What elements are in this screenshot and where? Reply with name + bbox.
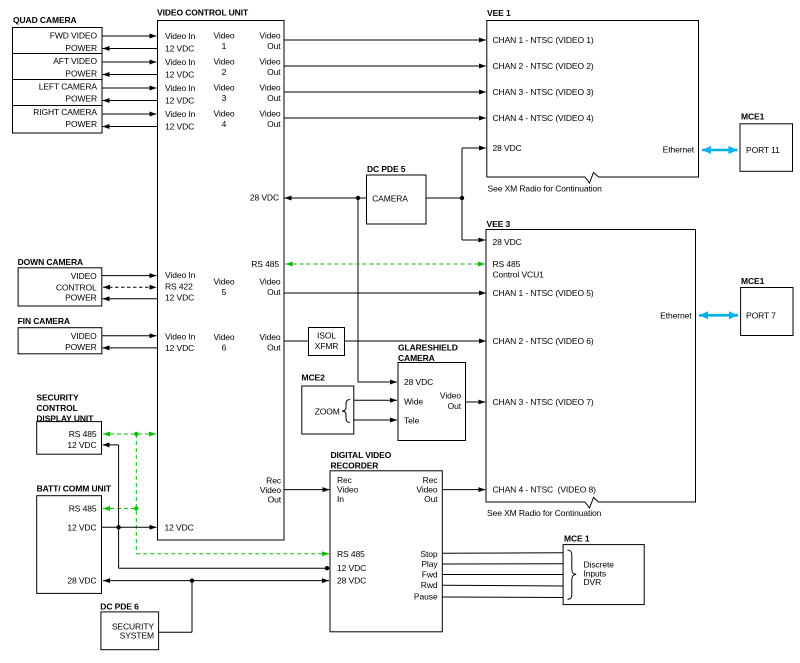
batt/comm unit box bbox=[37, 496, 102, 594]
svg-text:See XM Radio for Continuation: See XM Radio for Continuation bbox=[487, 508, 602, 518]
wire rwd to MCE1 bbox=[442, 584, 563, 587]
svg-text:Video: Video bbox=[440, 391, 461, 401]
wire 12 vdc vertical run bbox=[118, 445, 120, 568]
svg-text:XFMR: XFMR bbox=[315, 341, 339, 351]
SCDU pin labels bbox=[67, 429, 97, 450]
svg-text:POWER: POWER bbox=[65, 119, 97, 129]
glareshield camera box bbox=[398, 363, 466, 441]
svg-text:Video In: Video In bbox=[165, 109, 196, 119]
svg-text:CHAN 3 - NTSC (VIDEO 7): CHAN 3 - NTSC (VIDEO 7) bbox=[493, 397, 594, 407]
svg-text:VEE 3: VEE 3 bbox=[487, 219, 511, 229]
wire glareshield video out to VEE3 chan 3 bbox=[466, 401, 486, 403]
svg-text:RECORDER: RECORDER bbox=[331, 460, 379, 470]
svg-text:VEE 1: VEE 1 bbox=[487, 8, 511, 18]
svg-text:Video: Video bbox=[213, 83, 234, 93]
wire 12 vdc batt/comm to VCU bbox=[102, 526, 157, 528]
wire 28 vdc from DC PDE5 junction to VEE1 and VEE3 bbox=[426, 148, 486, 240]
discrete inputs brace bbox=[568, 550, 577, 599]
svg-text:CHAN 2 - NTSC (VIDEO 2): CHAN 2 - NTSC (VIDEO 2) bbox=[493, 61, 594, 71]
svg-text:Play: Play bbox=[421, 559, 438, 569]
DC PDE 6 box bbox=[101, 612, 159, 650]
svg-text:MCE1: MCE1 bbox=[741, 276, 765, 286]
wire down camera video to VCU video in 5 bbox=[102, 275, 157, 277]
svg-text:RS 422: RS 422 bbox=[165, 282, 193, 292]
svg-text:12 VDC: 12 VDC bbox=[165, 44, 194, 54]
svg-text:RS 485: RS 485 bbox=[251, 259, 279, 269]
svg-text:Rwd: Rwd bbox=[421, 580, 438, 590]
wire video out 3 to VEE1 chan 3 bbox=[284, 91, 486, 93]
svg-text:Rec: Rec bbox=[423, 475, 439, 485]
svg-text:DC PDE 5: DC PDE 5 bbox=[367, 164, 406, 174]
VCU video 5 pin labels bbox=[165, 270, 281, 303]
svg-text:12 VDC: 12 VDC bbox=[67, 522, 96, 532]
VCU video out pin labels 1-4 bbox=[259, 31, 281, 130]
svg-text:Video: Video bbox=[259, 277, 280, 287]
wire DVR rec video out to VEE3 chan 4 bbox=[442, 489, 485, 491]
DVR transport pin labels bbox=[414, 549, 438, 602]
zoom brace bbox=[342, 400, 350, 423]
wire fwd video to VCU video in 1 bbox=[102, 35, 157, 37]
svg-text:CHAN 2 - NTSC (VIDEO 6): CHAN 2 - NTSC (VIDEO 6) bbox=[493, 336, 594, 346]
svg-text:Ethernet: Ethernet bbox=[660, 310, 692, 320]
wire left camera video to VCU video in 3 bbox=[102, 87, 157, 89]
svg-text:Video: Video bbox=[259, 57, 280, 67]
security control display unit title bbox=[36, 392, 94, 423]
svg-text:Video In: Video In bbox=[165, 31, 196, 41]
svg-text:Out: Out bbox=[268, 495, 282, 505]
svg-text:RS 485: RS 485 bbox=[493, 259, 521, 269]
svg-text:2: 2 bbox=[222, 67, 227, 77]
svg-text:CHAN 4 - NTSC (VIDEO 8): CHAN 4 - NTSC (VIDEO 8) bbox=[493, 485, 597, 495]
svg-text:RS 485: RS 485 bbox=[69, 504, 97, 514]
isolation transformer box bbox=[309, 328, 345, 356]
svg-text:28 VDC: 28 VDC bbox=[67, 576, 96, 586]
DVR rec video out pin label bbox=[416, 475, 438, 504]
svg-text:12 VDC: 12 VDC bbox=[337, 563, 366, 573]
svg-text:VIDEO CONTROL UNIT: VIDEO CONTROL UNIT bbox=[157, 7, 249, 17]
wire 12 vdc VCU to fin camera power bbox=[103, 347, 158, 349]
wire video out 5 to VEE3 chan 1 bbox=[284, 292, 486, 294]
wire 28 vdc from DC PDE 5 to VCU bbox=[285, 197, 367, 199]
svg-text:POWER: POWER bbox=[65, 94, 97, 104]
ethernet link VEE1 to MCE1 port 11 (cyan) bbox=[702, 149, 738, 152]
svg-text:PORT 7: PORT 7 bbox=[746, 310, 776, 320]
wire rs 485 green net drop bbox=[135, 434, 137, 554]
svg-text:Out: Out bbox=[267, 287, 281, 297]
svg-text:Video In: Video In bbox=[165, 332, 196, 342]
svg-text:12 VDC: 12 VDC bbox=[165, 122, 194, 132]
svg-text:4: 4 bbox=[222, 119, 227, 129]
svg-text:Out: Out bbox=[448, 401, 462, 411]
wire 12 vdc VCU to down camera power bbox=[103, 298, 158, 300]
svg-text:CHAN 1 - NTSC (VIDEO 1): CHAN 1 - NTSC (VIDEO 1) bbox=[493, 35, 594, 45]
svg-text:6: 6 bbox=[222, 343, 227, 353]
svg-text:FIN CAMERA: FIN CAMERA bbox=[18, 316, 70, 326]
wire rs 485 green net to DVR bbox=[136, 553, 329, 555]
svg-text:VIDEO: VIDEO bbox=[71, 331, 97, 341]
DVR rec video in pin label bbox=[337, 475, 358, 504]
VEE 3 box with break symbol bbox=[486, 230, 696, 509]
wire 12 vdc 3 to left power bbox=[103, 100, 158, 102]
junction rs 485 batt/comm tap bbox=[134, 506, 138, 510]
VCU channel labels video 1-4 bbox=[213, 31, 234, 130]
wire 12 vdc 1 to fwd power bbox=[103, 48, 158, 50]
wire video out 6 through isol xfmr to VEE3 chan 2 bbox=[284, 340, 486, 342]
MCE2 box bbox=[302, 386, 354, 434]
svg-text:CHAN 3 - NTSC (VIDEO 3): CHAN 3 - NTSC (VIDEO 3) bbox=[493, 87, 594, 97]
quad camera box bbox=[13, 28, 103, 134]
svg-text:Rec: Rec bbox=[337, 475, 353, 485]
svg-text:LEFT CAMERA: LEFT CAMERA bbox=[39, 82, 98, 92]
svg-text:28 VDC: 28 VDC bbox=[493, 237, 522, 247]
svg-text:VIDEO: VIDEO bbox=[71, 271, 97, 281]
svg-text:MCE 1: MCE 1 bbox=[564, 533, 590, 543]
wire 28 vdc batt/comm to DVR (both ways) bbox=[103, 580, 329, 582]
video control unit box bbox=[158, 21, 285, 541]
discrete inputs DVR label bbox=[584, 560, 615, 587]
svg-text:Fwd: Fwd bbox=[422, 570, 438, 580]
svg-text:RIGHT CAMERA: RIGHT CAMERA bbox=[33, 107, 97, 117]
svg-text:5: 5 bbox=[222, 287, 227, 297]
svg-text:See XM Radio for Continuation: See XM Radio for Continuation bbox=[488, 184, 603, 194]
wire mce2 tele to glareshield bbox=[354, 419, 397, 421]
svg-text:Video: Video bbox=[337, 485, 358, 495]
svg-text:Wide: Wide bbox=[404, 397, 423, 407]
svg-text:3: 3 bbox=[222, 93, 227, 103]
junction 12 vdc batt tap bbox=[116, 525, 120, 529]
wire rec video out to DVR rec video in bbox=[284, 489, 330, 491]
svg-text:Video: Video bbox=[259, 31, 280, 41]
svg-text:ISOL: ISOL bbox=[317, 331, 336, 341]
wire video out 4 to VEE1 chan 4 bbox=[284, 117, 486, 119]
MCE 1 discrete inputs box bbox=[563, 545, 644, 605]
wire mce2 wide to glareshield bbox=[354, 399, 397, 401]
svg-text:28 VDC: 28 VDC bbox=[493, 143, 522, 153]
svg-text:SECURITY: SECURITY bbox=[36, 392, 79, 402]
MCE1 port 7 box bbox=[741, 288, 793, 336]
wire pause to MCE1 bbox=[442, 596, 563, 599]
batt/comm pin labels bbox=[67, 504, 97, 586]
svg-text:Video In: Video In bbox=[165, 83, 196, 93]
svg-text:Tele: Tele bbox=[404, 416, 420, 426]
svg-text:MCE1: MCE1 bbox=[741, 111, 765, 121]
svg-text:POWER: POWER bbox=[65, 43, 97, 53]
svg-text:AFT VIDEO: AFT VIDEO bbox=[53, 56, 97, 66]
svg-text:Video: Video bbox=[259, 109, 280, 119]
svg-text:Out: Out bbox=[267, 67, 281, 77]
svg-text:Video: Video bbox=[259, 332, 280, 342]
DC PDE 5 box bbox=[367, 175, 427, 224]
svg-text:12 VDC: 12 VDC bbox=[165, 522, 194, 532]
wire 12 vdc 4 to right power bbox=[103, 126, 158, 128]
svg-text:CAMERA: CAMERA bbox=[372, 194, 408, 204]
fin camera box bbox=[18, 328, 102, 354]
svg-text:28 VDC: 28 VDC bbox=[404, 377, 433, 387]
security control display unit box bbox=[37, 422, 102, 455]
svg-text:QUAD CAMERA: QUAD CAMERA bbox=[13, 15, 77, 25]
svg-text:Video: Video bbox=[213, 57, 234, 67]
svg-text:12 VDC: 12 VDC bbox=[165, 343, 194, 353]
svg-text:CHAN 1 - NTSC (VIDEO 5): CHAN 1 - NTSC (VIDEO 5) bbox=[493, 288, 594, 298]
wire video out 1 to VEE1 chan 1 bbox=[284, 39, 486, 41]
wire 28 vdc drop to glareshield camera bbox=[357, 198, 359, 382]
wire aft video to VCU video in 2 bbox=[102, 61, 157, 63]
svg-text:DC PDE 6: DC PDE 6 bbox=[100, 602, 139, 612]
wire rs 485 VCU to VEE3 (green dashed) bbox=[286, 263, 486, 265]
wire play to MCE1 bbox=[442, 563, 563, 565]
svg-text:12 VDC: 12 VDC bbox=[165, 70, 194, 80]
svg-text:Pause: Pause bbox=[414, 591, 438, 601]
fin camera pin labels bbox=[65, 331, 97, 352]
svg-text:DOWN CAMERA: DOWN CAMERA bbox=[18, 257, 83, 267]
junction 28 vdc security tap bbox=[190, 578, 194, 582]
wire video out 2 to VEE1 chan 2 bbox=[284, 65, 486, 67]
wire 12 vdc run to DVR bbox=[119, 567, 330, 569]
wire 12 vdc 2 to aft power bbox=[103, 74, 158, 76]
svg-text:Out: Out bbox=[267, 343, 281, 353]
svg-text:Video In: Video In bbox=[165, 57, 196, 67]
svg-text:POWER: POWER bbox=[65, 342, 97, 352]
svg-text:RS 485: RS 485 bbox=[337, 549, 365, 559]
down camera pin labels bbox=[56, 271, 97, 303]
svg-text:PORT 11: PORT 11 bbox=[746, 145, 780, 155]
svg-text:POWER: POWER bbox=[65, 293, 97, 303]
VCU video in / 12 vdc pin labels 1-4 bbox=[165, 31, 196, 132]
svg-text:RS 485: RS 485 bbox=[69, 429, 97, 439]
wire fwd to MCE1 bbox=[442, 574, 563, 576]
svg-text:Out: Out bbox=[267, 93, 281, 103]
svg-text:12 VDC: 12 VDC bbox=[165, 293, 194, 303]
svg-text:Out: Out bbox=[267, 119, 281, 129]
wire rs 485 SCDU to VCU (green dashed, both ways) bbox=[103, 433, 156, 435]
svg-text:Control VCU1: Control VCU1 bbox=[493, 270, 545, 280]
svg-text:DIGITAL VIDEO: DIGITAL VIDEO bbox=[331, 450, 392, 460]
svg-text:POWER: POWER bbox=[65, 69, 97, 79]
svg-text:DVR: DVR bbox=[584, 577, 602, 587]
svg-text:ZOOM: ZOOM bbox=[315, 406, 340, 416]
svg-text:CONTROL: CONTROL bbox=[56, 282, 97, 292]
svg-text:Video: Video bbox=[416, 485, 437, 495]
digital video recorder box bbox=[330, 471, 442, 632]
svg-text:Video: Video bbox=[260, 485, 281, 495]
MCE1 port 11 box bbox=[740, 124, 793, 172]
svg-text:Out: Out bbox=[424, 494, 438, 504]
glareshield pin labels bbox=[404, 377, 462, 426]
svg-text:In: In bbox=[337, 494, 344, 504]
svg-text:28 VDC: 28 VDC bbox=[337, 576, 366, 586]
wire rs 422 down camera to VCU (dashed, both ways) bbox=[103, 286, 157, 288]
VEE 1 box with break symbol bbox=[487, 21, 699, 184]
svg-text:Video: Video bbox=[259, 83, 280, 93]
down camera box bbox=[18, 268, 102, 306]
svg-text:CAMERA: CAMERA bbox=[398, 353, 435, 363]
svg-text:Rec: Rec bbox=[266, 476, 282, 486]
wire stop to MCE1 bbox=[442, 552, 563, 555]
svg-text:BATT/ COMM UNIT: BATT/ COMM UNIT bbox=[37, 484, 112, 494]
wire rs 485 to batt/comm unit (green dashed) bbox=[103, 508, 136, 510]
svg-text:28 VDC: 28 VDC bbox=[250, 193, 279, 203]
junction rs 485 green net bbox=[134, 432, 138, 436]
svg-text:Video: Video bbox=[213, 31, 234, 41]
svg-text:Video: Video bbox=[213, 277, 234, 287]
svg-text:Video: Video bbox=[213, 332, 234, 342]
wire fin camera video to VCU video in 6 bbox=[102, 335, 157, 337]
svg-text:GLARESHIELD: GLARESHIELD bbox=[398, 343, 458, 353]
svg-text:Out: Out bbox=[267, 41, 281, 51]
wire right camera video to VCU video in 4 bbox=[102, 113, 157, 115]
svg-text:12 VDC: 12 VDC bbox=[165, 96, 194, 106]
svg-text:SYSTEM: SYSTEM bbox=[120, 631, 154, 641]
svg-text:Stop: Stop bbox=[420, 549, 437, 559]
wire 12 vdc to SCDU bbox=[103, 444, 119, 446]
junction 12 vdc at DVR bbox=[325, 566, 329, 570]
quad camera pin labels bbox=[33, 31, 97, 130]
svg-text:FWD VIDEO: FWD VIDEO bbox=[50, 31, 98, 41]
svg-text:12 VDC: 12 VDC bbox=[67, 440, 96, 450]
junction 28 vdc branch bbox=[356, 196, 360, 200]
svg-text:1: 1 bbox=[222, 41, 227, 51]
ethernet link VEE3 to MCE1 port 7 (cyan) bbox=[699, 314, 738, 317]
svg-text:Video In: Video In bbox=[165, 270, 196, 280]
svg-text:CHAN 4 - NTSC (VIDEO 4): CHAN 4 - NTSC (VIDEO 4) bbox=[493, 113, 594, 123]
VCU video 6 pin labels bbox=[165, 332, 281, 354]
wire 28 vdc drop to security system bbox=[191, 581, 193, 633]
svg-text:MCE2: MCE2 bbox=[302, 373, 326, 383]
svg-text:Video: Video bbox=[213, 109, 234, 119]
wire 28 vdc into security system bbox=[159, 631, 192, 633]
VCU rec video out pin label bbox=[260, 476, 282, 505]
svg-text:Ethernet: Ethernet bbox=[663, 144, 695, 154]
svg-text:CONTROL: CONTROL bbox=[36, 403, 77, 413]
